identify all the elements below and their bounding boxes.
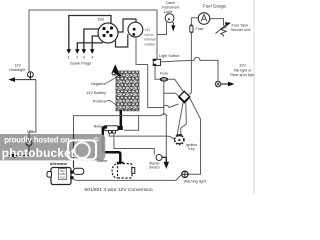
- negative pointer line: [106, 77, 117, 84]
- svg-text:Key: Key: [188, 147, 194, 151]
- svg-text:Negative: Negative: [91, 82, 106, 86]
- relay K1: [104, 126, 118, 133]
- svg-text:12V: 12V: [145, 28, 152, 32]
- starter motor M1: [112, 164, 135, 178]
- svg-text:internal: internal: [145, 38, 156, 42]
- wire spark plug 2: [77, 43, 103, 50]
- starter switch arrow head: [164, 162, 169, 169]
- wire tail light arrow: [221, 83, 229, 85]
- svg-text:12V: 12V: [239, 64, 246, 68]
- svg-text:Warning light: Warning light: [184, 180, 207, 184]
- svg-text:resistor: resistor: [145, 42, 157, 46]
- wire left headlight drop: [29, 10, 30, 75]
- fuse F2: [190, 25, 193, 34]
- spark plug 4 arrow: [90, 49, 95, 54]
- fuel gauge meter: [198, 13, 210, 25]
- svg-text:1: 1: [68, 56, 70, 60]
- coil U1: [128, 22, 143, 37]
- wire bus down to relay: [124, 116, 138, 131]
- thick starter cable: [103, 127, 121, 164]
- svg-text:Starter: Starter: [97, 159, 109, 163]
- svg-text:Tail light or: Tail light or: [233, 68, 252, 72]
- light switch S1: [153, 59, 161, 66]
- battery B1: [116, 71, 139, 111]
- wire gauge to sender: [210, 19, 224, 26]
- svg-text:Fuse: Fuse: [160, 72, 168, 76]
- svg-text:Spark Plugs: Spark Plugs: [70, 61, 91, 66]
- positive pointer line: [106, 101, 117, 106]
- svg-text:Fuse: Fuse: [196, 27, 204, 31]
- wire dash light feed: [157, 22, 167, 34]
- wire ignition to warning light: [188, 98, 200, 175]
- svg-text:Instrument: Instrument: [162, 6, 181, 10]
- right page edge line: [253, 0, 255, 194]
- wire dash light arrow: [172, 22, 174, 26]
- tail light arrow head: [228, 82, 235, 87]
- distributor: [98, 23, 118, 43]
- svg-text:FLD: FLD: [60, 175, 65, 179]
- charge wire through watermark: [73, 134, 75, 168]
- wire starter switch arrow: [162, 157, 166, 162]
- svg-text:3: 3: [83, 56, 85, 60]
- 12V headlight upper lamp: [28, 72, 34, 78]
- dash light arrow head: [171, 25, 175, 31]
- dash instrument light: [165, 14, 174, 23]
- wire ignition switch to key (right): [181, 102, 187, 134]
- svg-text:Light Switch: Light Switch: [159, 54, 179, 58]
- svg-text:Headlight: Headlight: [9, 68, 26, 72]
- sender arrow head: [225, 22, 231, 26]
- svg-text:Dash: Dash: [166, 1, 175, 5]
- headlight lower arrow: [9, 153, 16, 158]
- wire spark plug 3: [84, 29, 100, 50]
- wire relay to ignition key: [109, 133, 175, 140]
- svg-text:12V Battery: 12V Battery: [86, 91, 106, 95]
- alternator G1: [47, 162, 84, 185]
- wire tail light feed: [161, 57, 219, 81]
- fuse F1: [160, 78, 168, 82]
- wire spark plug 1: [69, 16, 111, 51]
- watermark logo: [68, 138, 98, 160]
- tail light lamp: [215, 81, 221, 87]
- headlight upper arrow: [8, 77, 15, 82]
- svg-text:Positive: Positive: [93, 100, 106, 104]
- svg-text:Sender unit: Sender unit: [231, 27, 252, 32]
- thick battery positive cable: [120, 110, 123, 127]
- wire headlight upper arrow lead: [15, 78, 36, 80]
- fuel tank sender (variable resistor): [216, 22, 232, 36]
- bottom bus wire (alternator to warning light): [73, 174, 182, 180]
- wire upper lamp to lower lamp: [29, 80, 36, 140]
- svg-text:601/801 3 wire 12V Conversion: 601/801 3 wire 12V Conversion: [84, 187, 153, 193]
- wire fuse branch to ignition switch left: [163, 81, 165, 116]
- relay terminal blob: [118, 126, 123, 130]
- wire spark plug 4: [92, 36, 100, 50]
- starter switch: [156, 155, 162, 161]
- charge bus wire (alternator to relay and starter switch): [74, 114, 167, 169]
- wire fuse to ignition switch: [167, 79, 183, 91]
- svg-text:photobucket: photobucket: [2, 146, 75, 160]
- svg-text:Rear spot light: Rear spot light: [230, 73, 255, 77]
- wire gauge left: [191, 17, 198, 19]
- 12V headlight lower lamp: [26, 140, 32, 146]
- svg-text:Dist: Dist: [98, 18, 105, 22]
- wire gauge to fuse2: [190, 18, 192, 25]
- spark plug 3 arrow: [82, 49, 87, 54]
- wire fuse2 down to ignition switch: [189, 32, 191, 94]
- spark plug 1 arrow: [67, 49, 72, 54]
- wire lower headlight through watermark: [28, 134, 30, 140]
- ignition key: [175, 134, 184, 144]
- svg-text:coil w/: coil w/: [145, 33, 154, 37]
- svg-text:4: 4: [91, 56, 93, 60]
- wire coil to ignition switch: [136, 38, 179, 108]
- svg-text:12V: 12V: [27, 130, 34, 134]
- svg-text:Light: Light: [164, 10, 173, 14]
- wire light switch to fuse: [155, 66, 161, 80]
- wire top bus to light switch: [29, 10, 157, 59]
- battery negative ground arrow: [112, 64, 121, 76]
- wire relay to starter switch: [114, 133, 154, 155]
- svg-text:R: R: [95, 138, 97, 142]
- wire coil HT lead: [118, 19, 136, 32]
- wire distributor points to coil: [116, 34, 128, 47]
- wire ignition switch to key (left): [177, 102, 183, 134]
- ignition switch (diamond): [179, 91, 190, 102]
- svg-text:proudly hosted on: proudly hosted on: [4, 136, 70, 145]
- warning light lamp: [182, 171, 188, 177]
- svg-text:Fuel Gauge: Fuel Gauge: [203, 4, 227, 9]
- starter terminal blob: [117, 162, 124, 166]
- svg-text:Switch: Switch: [149, 166, 160, 170]
- wire headlight lower arrow lead: [15, 146, 29, 156]
- photobucket watermark bar: [0, 134, 105, 160]
- spark plug 2 arrow: [75, 49, 80, 54]
- svg-text:2: 2: [76, 56, 78, 60]
- svg-text:Alternator: Alternator: [50, 162, 68, 166]
